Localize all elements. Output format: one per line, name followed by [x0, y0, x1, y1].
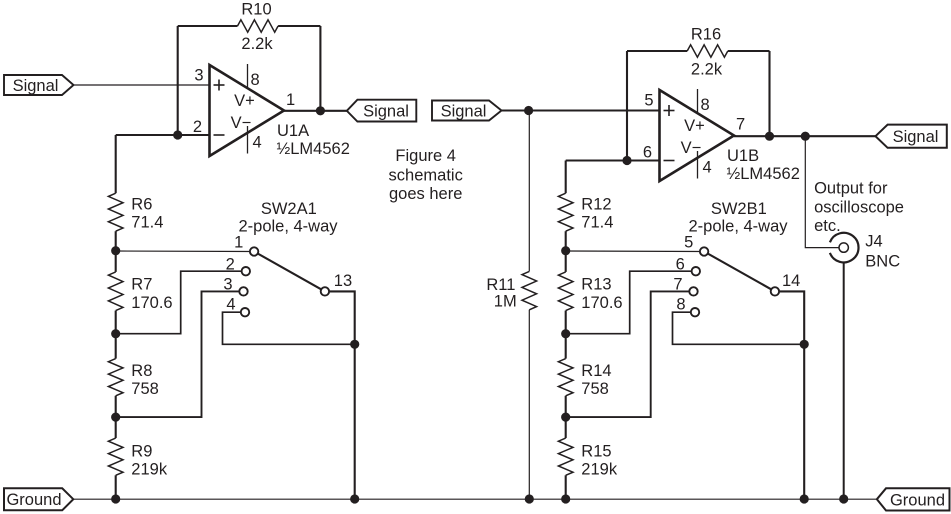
resistor R14 [558, 359, 573, 396]
op-amp U1B minus input mark [664, 160, 675, 162]
svg-text:Output for: Output for [814, 180, 888, 198]
svg-text:6: 6 [643, 144, 652, 162]
wire R13-R14 [565, 311, 567, 359]
wire pin 6 to node B [566, 159, 660, 161]
node tap 7 [561, 413, 570, 422]
svg-text:13: 13 [334, 272, 352, 290]
svg-text:R8: R8 [131, 362, 152, 380]
label R8 [131, 362, 159, 398]
svg-text:1M: 1M [494, 293, 517, 311]
svg-text:Signal: Signal [893, 128, 939, 146]
svg-text:71.4: 71.4 [131, 214, 163, 232]
node tap 3 [111, 413, 120, 422]
svg-text:4: 4 [703, 159, 712, 177]
connector J4 BNC center pin [839, 243, 848, 252]
switch arm SW2B1 [704, 252, 775, 292]
pin number 6 [643, 144, 652, 162]
svg-text:R16: R16 [691, 26, 721, 44]
label J4 BNC [865, 233, 900, 271]
resistor R8 [108, 359, 123, 396]
svg-text:Ground: Ground [6, 491, 61, 509]
svg-text:½LM4562: ½LM4562 [277, 140, 350, 158]
resistor R10 [238, 20, 279, 32]
wire pole 13 down [325, 291, 355, 499]
node junction pin2/feedback [173, 130, 182, 139]
wire pin 2 to node A [116, 134, 210, 136]
label V+ U1B [684, 117, 705, 135]
op-amp U1A minus input mark [214, 134, 225, 136]
switch pole 13 [321, 287, 329, 295]
pin 4 stub U1A [247, 126, 249, 154]
wire R7-R8 [115, 311, 117, 359]
wire feedback left vertical B [626, 51, 628, 161]
pin number 8 (SW) [676, 296, 685, 314]
svg-text:BNC: BNC [865, 252, 900, 270]
wire feedback top B [627, 50, 770, 52]
svg-text:7: 7 [736, 116, 745, 134]
op-amp U1B plus input mark [664, 105, 675, 116]
svg-text:V−: V− [681, 139, 702, 157]
wire ground rail [73, 498, 877, 500]
wire chain top A [115, 135, 117, 193]
node tap 5 [561, 246, 570, 255]
node tap 2 [111, 329, 120, 338]
node pole-ground A [350, 494, 359, 503]
svg-text:14: 14 [782, 272, 800, 290]
wire chain top B [565, 161, 567, 194]
op-amp U1A plus input mark [214, 80, 225, 91]
wire tap1 to contact 1 [116, 250, 254, 253]
wire feedback right vertical A [319, 26, 321, 111]
pin number 4 [253, 134, 262, 152]
svg-text:R7: R7 [131, 276, 152, 294]
node chain-ground B [561, 494, 570, 503]
wire R12-R13 [565, 231, 567, 272]
pin number 8 (U1B) [701, 96, 710, 114]
svg-text:6: 6 [676, 256, 685, 274]
svg-text:219k: 219k [131, 461, 168, 479]
wire tap2 to contact 2 [116, 271, 246, 334]
wire tap6 to contact 6 [566, 271, 696, 334]
wire input A to pin 3 [74, 84, 210, 86]
svg-text:Figure 4: Figure 4 [395, 147, 456, 165]
wire tap5 to contact 5 [566, 250, 704, 253]
svg-text:2: 2 [226, 256, 235, 274]
svg-text:V−: V− [231, 114, 252, 132]
label R12 [581, 196, 613, 232]
switch contact 1 [250, 247, 258, 255]
switch contact 7 [689, 287, 697, 295]
svg-text:J4: J4 [865, 233, 882, 251]
switch contact 4 [241, 308, 249, 316]
label SW2A1 [238, 200, 338, 236]
wire tap3 to contact 3 [116, 291, 244, 417]
node chain-ground A [111, 494, 120, 503]
wire R15 to ground [565, 475, 567, 499]
label SW2B1 [688, 200, 788, 236]
wire pole 14 down [775, 291, 804, 499]
wire R8-R9 [115, 396, 117, 438]
svg-text:etc.: etc. [814, 217, 841, 235]
svg-text:Signal: Signal [13, 77, 59, 95]
pin number 3 [194, 67, 203, 85]
resistor R12 [558, 193, 573, 231]
svg-text:4: 4 [253, 134, 262, 152]
label R13 [581, 276, 622, 313]
pin number 7 [736, 116, 745, 134]
switch contact 8 [691, 308, 699, 316]
svg-text:2-pole, 4-way: 2-pole, 4-way [688, 218, 788, 236]
pin number 5 [644, 92, 653, 110]
pin number 1 (SW) [234, 233, 243, 251]
svg-text:R12: R12 [581, 196, 611, 214]
node Signal (input flag, left) [4, 75, 74, 95]
ground flag right [877, 488, 950, 510]
pin 8 stub U1A [247, 64, 249, 87]
svg-text:V+: V+ [234, 92, 255, 110]
pin number 13 (SW) [334, 272, 352, 290]
pin number 7 (SW) [673, 275, 682, 293]
svg-text:R13: R13 [581, 276, 611, 294]
svg-text:R10: R10 [241, 1, 271, 19]
wire input B to pin 5 [502, 109, 660, 111]
node pole-ground B [800, 494, 809, 503]
svg-text:U1B: U1B [727, 147, 759, 165]
svg-text:R11: R11 [486, 276, 515, 294]
wire R9 to ground [115, 475, 117, 499]
pin number 1 [286, 91, 295, 109]
pin 8 stub U1B [697, 89, 699, 112]
wire feedback left vertical A [177, 26, 179, 135]
svg-text:3: 3 [223, 275, 232, 293]
svg-text:4: 4 [226, 296, 235, 314]
node R11-ground [525, 494, 534, 503]
wire R14-R15 [565, 396, 567, 438]
pin number 2 [193, 118, 202, 136]
switch contact 3 [239, 287, 247, 295]
svg-text:R9: R9 [131, 443, 152, 461]
svg-text:2: 2 [193, 118, 202, 136]
svg-text:goes here: goes here [389, 185, 462, 203]
note Figure 4 [389, 147, 463, 203]
svg-text:71.4: 71.4 [581, 214, 613, 232]
svg-text:schematic: schematic [389, 167, 463, 185]
label R7 [131, 276, 172, 313]
wire contact 8 to pole line [673, 312, 805, 344]
label R15 [581, 443, 618, 479]
pin number 8 [251, 71, 260, 89]
resistor R9 [108, 438, 123, 475]
svg-text:219k: 219k [581, 461, 618, 479]
label R9 [131, 443, 168, 479]
svg-text:758: 758 [581, 380, 609, 398]
label U1B [727, 147, 800, 183]
svg-text:3: 3 [194, 67, 203, 85]
node Signal (input flag, right) [432, 101, 502, 121]
pin number 4 (U1B) [703, 159, 712, 177]
svg-text:7: 7 [673, 275, 682, 293]
wire feedback top A [178, 25, 321, 27]
svg-text:1: 1 [234, 233, 243, 251]
svg-text:8: 8 [251, 71, 260, 89]
svg-text:5: 5 [644, 92, 653, 110]
svg-text:170.6: 170.6 [131, 294, 172, 312]
resistor R15 [558, 438, 573, 475]
pin number 14 (SW) [782, 272, 800, 290]
label R14 [581, 362, 611, 398]
resistor R13 [558, 272, 573, 311]
switch contact 6 [692, 267, 700, 275]
label V+ U1A [234, 92, 255, 110]
op-amp U1A [210, 65, 285, 156]
pin 4 stub U1B [697, 151, 699, 179]
label R10 value [241, 1, 273, 54]
wire contact 4 to pole line [223, 312, 355, 344]
svg-text:oscilloscope: oscilloscope [814, 199, 904, 217]
wire output to BNC [805, 136, 838, 247]
svg-text:R15: R15 [581, 443, 611, 461]
note output for oscilloscope [814, 180, 904, 236]
svg-text:Ground: Ground [890, 491, 945, 509]
svg-text:5: 5 [684, 233, 693, 251]
node output junction B1 [765, 132, 774, 141]
wire R6-R7 [115, 231, 117, 272]
wire output U1B [734, 135, 876, 137]
label V− U1A [231, 114, 252, 132]
node pole/contact4 junction [350, 340, 359, 349]
svg-text:758: 758 [131, 380, 159, 398]
switch pole 14 [771, 287, 779, 295]
pin number 5 (SW) [684, 233, 693, 251]
svg-text:Signal: Signal [363, 103, 409, 121]
switch contact 5 [700, 247, 708, 255]
label R6 [131, 196, 163, 232]
wire feedback right vertical B [768, 51, 770, 136]
node Signal (output flag, right) [876, 125, 947, 148]
svg-text:SW2B1: SW2B1 [711, 200, 767, 218]
svg-text:1: 1 [286, 91, 295, 109]
label U1A [277, 122, 350, 158]
pin number 2 (SW) [226, 256, 235, 274]
svg-text:SW2A1: SW2A1 [261, 200, 317, 218]
connector J4 BNC outer [830, 233, 859, 263]
resistor R11 [522, 111, 537, 500]
svg-text:2.2k: 2.2k [691, 61, 723, 79]
node junction R11 top [524, 106, 533, 115]
svg-text:8: 8 [701, 96, 710, 114]
pin number 4 (SW) [226, 296, 235, 314]
svg-text:U1A: U1A [277, 122, 309, 140]
svg-text:8: 8 [676, 296, 685, 314]
label R11 [486, 276, 516, 311]
label V− U1B [681, 139, 702, 157]
switch contact 2 [242, 267, 250, 275]
node BNC-ground [839, 494, 848, 503]
label R16 value [691, 26, 723, 79]
wire tap7 to contact 7 [566, 291, 694, 417]
svg-text:½LM4562: ½LM4562 [727, 165, 800, 183]
switch arm SW2A1 [254, 252, 325, 292]
resistor R16 [687, 45, 728, 57]
wire BNC shield to ground [843, 262, 845, 499]
resistor R6 [108, 193, 123, 231]
svg-text:2-pole, 4-way: 2-pole, 4-way [238, 218, 338, 236]
op-amp U1B [660, 90, 735, 181]
node junction pin6/feedback [622, 156, 631, 165]
svg-text:R14: R14 [581, 362, 611, 380]
node Signal (output flag, left) [347, 100, 417, 122]
resistor R7 [108, 272, 123, 311]
wire output U1A [284, 110, 347, 112]
svg-text:Signal: Signal [441, 102, 487, 120]
pin number 3 (SW) [223, 275, 232, 293]
node pole/contact8 junction [800, 340, 809, 349]
svg-text:170.6: 170.6 [581, 294, 622, 312]
node tap 1 [111, 246, 120, 255]
node output junction A [316, 106, 325, 115]
svg-text:R6: R6 [131, 196, 152, 214]
pin number 6 (SW) [676, 256, 685, 274]
node tap 6 [561, 329, 570, 338]
svg-text:V+: V+ [684, 117, 705, 135]
node output junction B2 [801, 132, 810, 141]
ground flag left [4, 488, 73, 510]
svg-text:2.2k: 2.2k [241, 35, 273, 53]
